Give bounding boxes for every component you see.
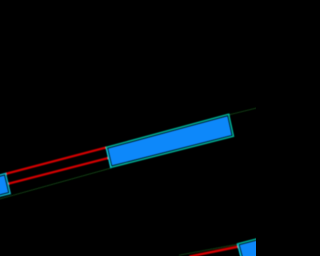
pad P3 blue fill (bottom copper), bottom-right corner [240,235,283,256]
trace (red, top copper) bottom-right chain [190,247,239,256]
pad P2 left edge (cyan, pad boundary) [107,149,111,168]
trace lower (red, top copper) between pad centers [8,158,109,184]
pad P1 blue fill (bottom copper), left edge [0,175,8,199]
pad P2 teal outline [106,114,233,167]
trace upper (red, top copper) between pads [6,147,106,173]
outline top edge (dark green) bottom-right chain [179,244,238,255]
pad P1 teal outline [0,174,10,202]
outline bottom edge (dark green) of component band, left of pad [0,168,111,199]
outline top edge (dark green) right of large pad [229,108,258,115]
pad P3 teal outline [238,234,285,256]
pad P3 left edge (cyan, pad boundary) [238,244,241,256]
pad P2 blue fill (bottom copper), large center pad [108,116,231,165]
outline top edge (dark green) under upper trace between pads [6,148,106,174]
